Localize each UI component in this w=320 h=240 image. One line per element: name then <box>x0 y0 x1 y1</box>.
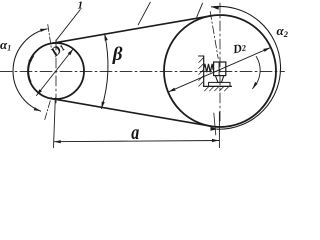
tensioner floor <box>204 85 232 87</box>
node vertical centerline large pulley <box>219 3 221 122</box>
svg-text:β: β <box>112 44 123 65</box>
tensioner bearing block <box>214 62 226 76</box>
node tick top boundary large pulley <box>197 3 203 17</box>
svg-text:D2: D2 <box>231 40 248 56</box>
node tick bottom boundary large pulley <box>214 113 216 135</box>
dimension a center distance <box>54 141 219 142</box>
dimension D1 diameter arrow <box>37 49 74 96</box>
wire horizontal centerline <box>0 70 285 72</box>
node tick bottom boundary small pulley <box>45 97 52 120</box>
wire extension line right for dimension a <box>218 112 220 148</box>
arc alpha2 wrap angle <box>212 6 281 129</box>
tensioner wall <box>203 56 205 86</box>
dimension D2 diameter arrow <box>169 48 271 92</box>
arc alpha1 wrap angle <box>13 29 47 111</box>
arrow rotation small pulley <box>29 56 34 82</box>
wire leader from label 1 to belt <box>56 10 81 41</box>
tensioner wall hatching <box>199 58 204 87</box>
node tick on belt mid <box>138 2 150 25</box>
arc beta between belt spans <box>102 34 108 109</box>
tensioner base plate <box>209 82 230 86</box>
svg-text:a: a <box>131 121 139 143</box>
svg-text:α1: α1 <box>0 37 11 53</box>
arrow rotation large pulley <box>253 57 261 89</box>
svg-text:α2: α2 <box>277 23 289 39</box>
belt bottom span <box>51 99 210 127</box>
node vertical centerline small pulley <box>55 40 57 103</box>
tensioner pedestal trapezoid <box>215 76 224 83</box>
node tick top boundary small pulley <box>48 25 52 49</box>
pulley large D2 <box>164 15 276 127</box>
tensioner spring <box>204 64 214 72</box>
belt top span <box>51 16 210 44</box>
wire extension line left for dimension a <box>54 98 56 148</box>
node boundary line top tangent large pulley <box>210 12 218 59</box>
tensioner floor hatching <box>205 86 230 91</box>
pulley small D1 <box>28 43 84 99</box>
